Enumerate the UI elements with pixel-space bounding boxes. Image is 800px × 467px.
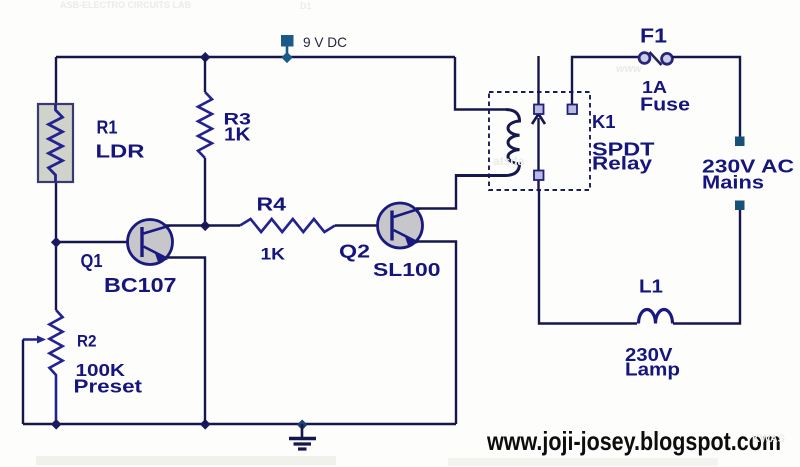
svg-text:R2: R2 [77,332,97,351]
mains terminal lower [735,201,745,211]
wire NO contact up to fuse line [572,57,638,104]
mains terminal upper [735,137,745,147]
svg-text:R4: R4 [257,195,287,215]
relay armature pole wire [537,118,539,189]
wire Q1 emitter to ground [167,258,205,425]
wire LDR bottom to base node to R2 top [55,181,57,310]
svg-text:Mains: Mains [702,172,764,193]
transistor Q2 [378,203,423,248]
wire Q2 collector to relay coil [416,176,505,209]
fuse F1 [639,52,672,65]
wire mains down to lamp line [673,210,740,324]
svg-text:ASB-ELECTRO CIRCUITS LAB: ASB-ELECTRO CIRCUITS LAB [60,0,191,10]
relay K1 dashed enclosure [489,92,590,190]
ground [289,419,316,449]
wire fuse to mains corner [672,57,740,137]
wire Q1 base [56,241,128,243]
svg-text:SL100: SL100 [373,260,441,280]
svg-text:R1: R1 [97,118,118,138]
wire preset wiper to ground rail [22,340,24,425]
svg-text:www.joji-josey.blogspot.com: www.joji-josey.blogspot.com [486,426,781,456]
svg-text:KWAS: KWAS [752,433,785,445]
power terminal 9 V DC [281,35,294,63]
svg-text:L1: L1 [639,276,663,297]
relay common terminal [534,171,544,181]
svg-text:atsda: atsda [493,154,525,168]
svg-text:BC107: BC107 [104,275,177,297]
svg-text:Relay: Relay [592,153,653,174]
relay coil winding [455,110,520,176]
svg-text:F1: F1 [640,26,667,48]
wire Q1 collector to node [166,224,205,226]
wire Q2 emitter to ground [417,242,456,425]
relay NC contact terminal [534,105,544,115]
relay K1 [455,56,590,190]
wire NC contact stub [537,56,539,106]
node top rail at R3 [200,52,211,63]
node rail mid [200,419,211,430]
svg-text:D1: D1 [300,1,312,11]
relay NO contact terminal [568,105,578,115]
node base junction [51,237,62,248]
node rail left [51,419,62,430]
resistor R4 [205,219,378,232]
svg-text:Lamp: Lamp [625,360,680,380]
wire +9V rail corner down to coil top [455,57,506,110]
node collector junction [200,220,211,231]
resistor R3 [198,57,212,226]
svg-text:K1: K1 [592,112,616,132]
wire ground bottom rail [23,423,456,425]
svg-text:LDR: LDR [96,141,145,162]
preset R2 [23,310,63,424]
wire relay common down to lamp line [539,189,637,324]
svg-text:1K: 1K [224,125,251,145]
svg-text:Q1: Q1 [81,251,103,271]
svg-text:Q2: Q2 [339,242,370,262]
relay armature arrow [532,114,545,124]
transistor Q1 [128,220,173,265]
svg-text:Fuse: Fuse [640,95,690,115]
resistor R1 LDR [38,104,73,182]
svg-text:Preset: Preset [74,377,143,397]
svg-text:1K: 1K [261,245,286,264]
svg-text:www: www [616,63,643,75]
wire top +9V rail [56,56,455,58]
lamp L1 [639,310,673,324]
svg-text:9 V DC: 9 V DC [303,34,347,50]
wire left vertical from rail to LDR top [55,57,57,105]
